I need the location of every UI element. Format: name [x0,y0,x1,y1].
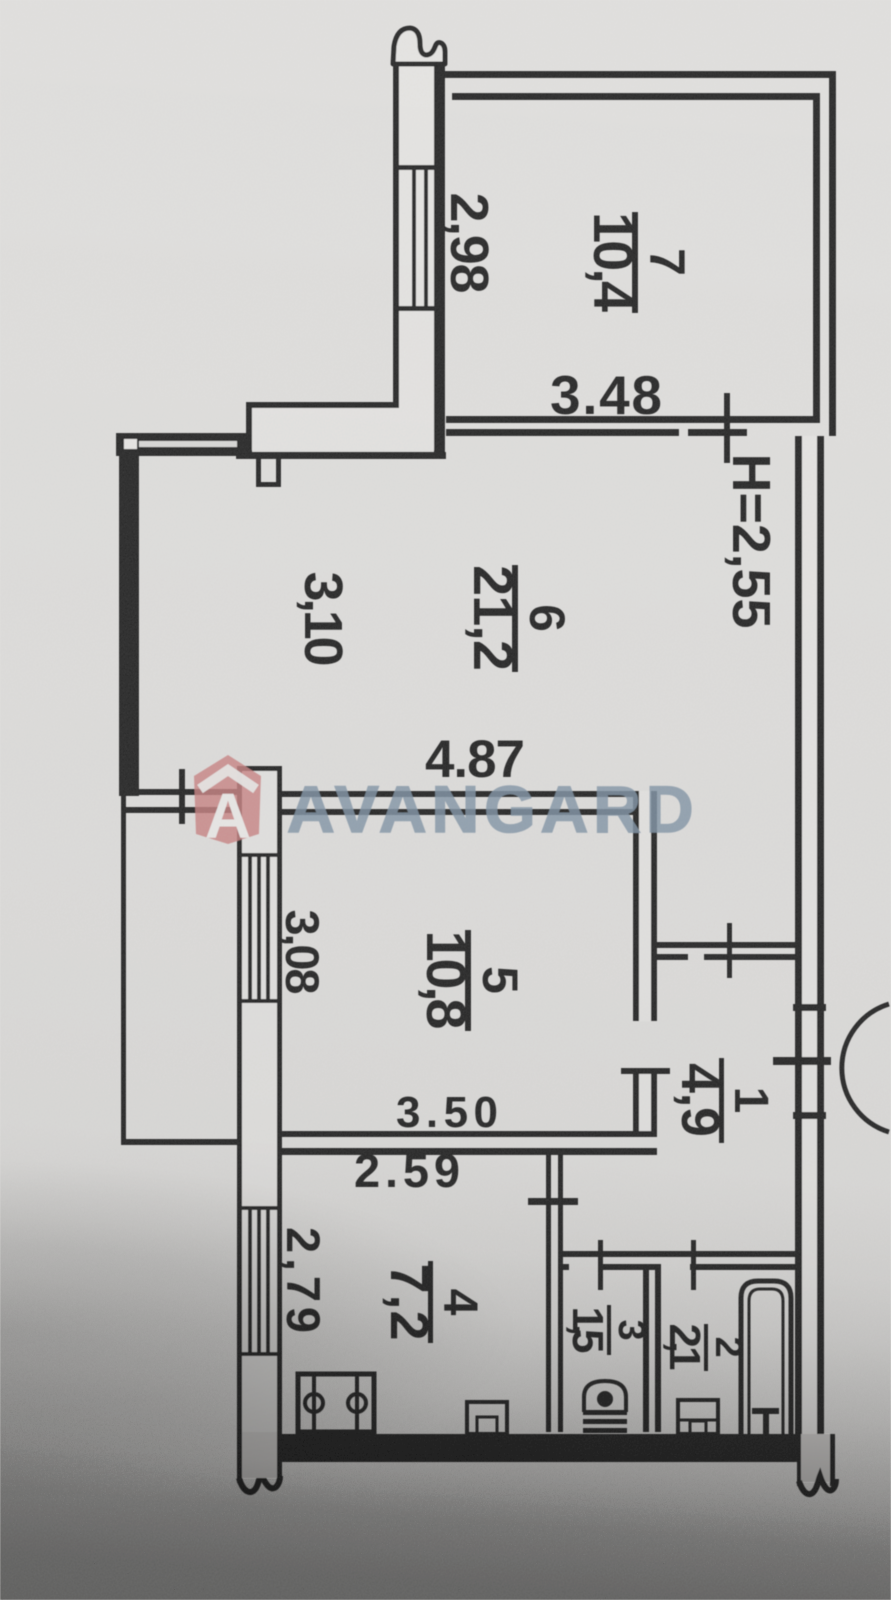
room5 right wall lower left line [633,1072,639,1137]
room5 window hatch top boundary [237,853,282,857]
toilet bowl dome [584,1381,626,1412]
window hatch bottom boundary [393,306,445,311]
bath-toilet top wall upper line [558,1251,797,1257]
washbasin outline [678,1400,718,1434]
toilet-bath divider right line [655,1264,661,1432]
door tick room1 top [727,923,732,978]
room5 window hatch line3 [266,857,270,999]
window strip crossing bottom wall white [242,1432,277,1478]
room5 top wall left extension lower [121,807,237,813]
room2 label fraction [660,1324,749,1372]
main window strip right line [277,766,282,1483]
room1 top wall lower line segment b [704,954,797,960]
room6 label fraction [462,565,575,672]
entrance door swing arc [842,1004,889,1132]
room5 right wall lower right line [651,1072,657,1137]
dimension tick left of window strip [179,769,185,824]
kitchen sink outline [467,1402,507,1434]
room7 outer top wall [441,71,836,78]
room6 top-left wall band [116,433,246,456]
bathtub inner [749,1289,783,1435]
window strip left line [393,44,399,406]
bottom-right foot left line [797,1434,801,1486]
bathtub drain T bar [752,1408,779,1414]
main window strip white interior [242,766,277,1478]
L-band top line [246,402,399,408]
room7 bottom wall lower line segment b [688,429,747,436]
room5 bottom wall upper line [282,1131,657,1137]
door tick toilet [598,1240,603,1290]
avangard logo shield [194,755,261,844]
room5 window hatch line2 [257,857,261,999]
apartment right wall white core [802,436,817,1434]
bathtub outer [741,1281,791,1435]
room6 band white corner square [124,439,137,449]
room6 band white stripe [139,441,239,447]
room5 bottom wall lower line [282,1148,657,1155]
stove right burner [348,1394,366,1412]
washbasin inner box [690,1421,706,1434]
washbasin inner line [678,1419,718,1422]
room7 bottom wall lower line segment a [446,429,679,436]
door tick room5 [621,1068,670,1074]
bottom-right foot right line [830,1434,835,1486]
room5 top wall left extension upper [121,789,237,795]
L-band left connector [246,402,252,452]
room5 top wall lower line [280,809,657,815]
room7 label fraction [582,212,695,313]
balcony box bottom wall [121,1139,237,1145]
wall stub into room6 right line [276,452,281,486]
toilet tank bar1 [583,1410,627,1415]
stove left rail [312,1374,316,1432]
window hatch top boundary [393,165,445,170]
bottom-right foot torn edge [799,1476,836,1494]
window hatch line 1 [412,170,416,306]
room4 label fraction [379,1261,486,1343]
room5 right wall upper right line [651,791,657,1021]
kitchen-hall divider wall left line [546,1148,551,1432]
room5 label fraction [415,930,528,1031]
avangard logo chevron [200,770,256,789]
room5 right wall upper left line [633,791,639,1021]
room5 right wall white core [639,791,651,1021]
room6 left wall thick [119,434,139,796]
wall band room6-to-window white interior [250,406,436,450]
room3 label fraction [563,1305,652,1355]
kitchen window hatch bottom boundary [237,1352,282,1356]
main window strip top cap [237,766,282,771]
window strip torn bottom [239,1473,280,1492]
stove outline [298,1374,374,1432]
main window strip left line [237,766,242,1483]
wall stub bottom cap [256,482,281,487]
apartment right wall right line [817,436,824,1434]
bath-toilet top wall lower segment a [558,1264,569,1270]
bottom outer wall [282,1434,801,1462]
room5 window hatch bottom boundary [237,999,282,1003]
kitchen window hatch line2 [257,1210,261,1352]
window hatch line 2 [424,170,428,306]
entrance door stub lower [793,1112,826,1119]
room7 inner right wall [813,93,820,423]
apartment right wall left line [795,436,802,1434]
dimension tick on 3.48 wall [724,393,730,463]
toilet-bath divider left line [643,1264,649,1432]
bath-toilet top wall lower segment b [598,1264,655,1270]
kitchen window hatch line1 [248,1210,252,1352]
room5 top wall upper line [280,791,657,797]
room1 top wall lower line segment a [651,954,688,960]
window strip torn-edge zigzag top [393,28,445,64]
balcony box left wall [121,791,126,1145]
bathtub drain stem [763,1408,769,1434]
L-band left post [237,433,247,457]
room1 label fraction [670,1058,777,1143]
room1 top wall upper line [651,942,797,948]
stove left burner [305,1394,323,1412]
bottom-left scan darkening [0,1100,600,1600]
kitchen window hatch line3 [266,1210,270,1352]
toilet tank bar3 [583,1428,627,1433]
entrance door big tick [773,1057,831,1065]
window strip right thick line [434,44,445,456]
toilet tank bar2 [583,1419,627,1424]
kitchen window hatch top boundary [237,1206,282,1210]
bath-toilet top wall lower segment c [690,1264,797,1270]
room7 outer right wall [829,71,836,436]
balcony window strip top-left: white interior [398,50,435,450]
room7 inner top wall [452,93,820,100]
stove right rail [355,1374,359,1432]
door tick kitchen [528,1198,578,1205]
door tick bathroom [691,1240,696,1290]
room5 window hatch line1 [248,857,252,999]
toilet dot [599,1393,611,1405]
room7 bottom wall upper line [446,416,820,423]
entrance door stub upper [793,1004,826,1011]
kitchen sink inner [477,1417,497,1434]
kitchen-hall divider wall right line [558,1148,563,1432]
bottom-right wall foot white [800,1434,831,1482]
wall stub into room6 left line [256,452,261,486]
L-band bottom line [236,452,446,459]
